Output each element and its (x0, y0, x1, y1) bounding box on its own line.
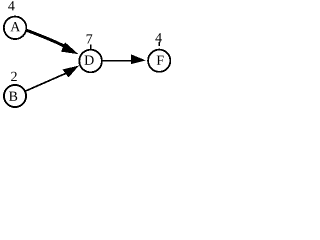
wire edge B->D (25, 74, 66, 92)
arrowhead B->D (63, 66, 80, 78)
arrowhead D->F (131, 54, 146, 64)
arrowhead A->D (61, 42, 78, 54)
node D (79, 50, 102, 73)
label 7 (above D) (87, 34, 93, 43)
label 4 (above F) (155, 33, 162, 42)
label 2 (above B) (11, 72, 17, 81)
wire edge A->D (thick) (25, 30, 65, 47)
label 4 (above A) (8, 1, 15, 10)
tick above D (90, 45, 91, 50)
node F (148, 50, 170, 72)
tick above F (159, 42, 160, 46)
wire edge D->F (102, 60, 133, 62)
node A (4, 17, 27, 40)
node B (4, 85, 26, 107)
